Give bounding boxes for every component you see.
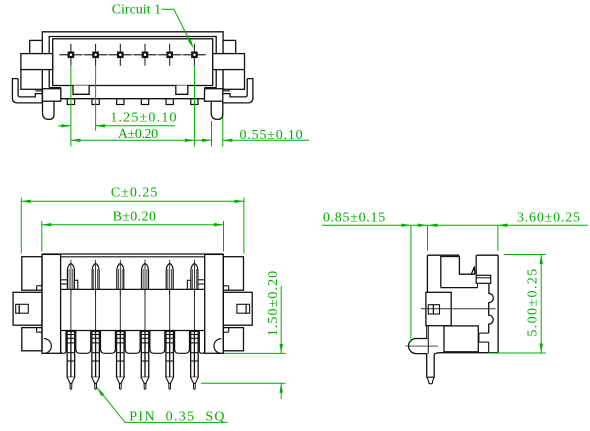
side view: outer profile: [427, 254, 459, 256]
side view: solder tab bullet: [409, 339, 428, 354]
top view: base bottom edge: [61, 98, 206, 100]
front view: left wall rounded end: [44, 339, 51, 354]
front view: right wall: [205, 254, 224, 353]
front view: left wall shelf: [61, 279, 68, 281]
top view: right step tab: [223, 40, 236, 53]
top view: mating pins (squares with crosshairs): [60, 44, 82, 66]
svg-text:A±0.20: A±0.20: [118, 127, 158, 142]
svg-text:0.85±0.15: 0.85±0.15: [323, 210, 386, 225]
svg-text:B±0.20: B±0.20: [113, 209, 157, 224]
side view: molding bottom: [441, 287, 478, 289]
front view: pin shanks inside base: [70, 289, 72, 331]
front view: through-hole pins: [67, 331, 75, 389]
front view: left solder clip: [13, 292, 42, 325]
dim: 1.25 pitch dimension: [58, 125, 71, 127]
top view: left step tab: [30, 40, 43, 53]
top view: right peg: [211, 101, 223, 119]
top view: left foot block: [43, 89, 61, 102]
dim: C dimension: [21, 200, 244, 202]
dim: C extension lines: [20, 198, 22, 254]
dim: 5.00 extension lines: [504, 254, 546, 256]
top view: right lower block: [223, 70, 244, 90]
dim: side extension lines: [410, 225, 412, 342]
front view: polarizing key pin 1: [74, 280, 77, 289]
side view: center line: [421, 308, 496, 310]
svg-text:PIN 0.35 SQ: PIN 0.35 SQ: [129, 409, 226, 424]
svg-text:0.55±0.10: 0.55±0.10: [240, 128, 304, 143]
front view: left lower block: [22, 328, 42, 351]
front view: right lower block: [223, 328, 243, 351]
front view: right solder clip: [223, 292, 252, 325]
front view: right wall rounded end: [214, 339, 221, 354]
svg-text:Circuit 1: Circuit 1: [112, 3, 161, 18]
dim: Circuit 1 leader: [162, 9, 191, 41]
top view: shroud middle wall: [49, 37, 216, 88]
dim: B dimension: [42, 224, 224, 226]
svg-text:1.50±0.20: 1.50±0.20: [266, 270, 281, 337]
dim: 5.00 dimension: [540, 255, 542, 354]
top view: housing outer body: [42, 32, 223, 103]
front view: right wall shelf: [198, 279, 205, 281]
front view: webs between pins: [61, 331, 66, 354]
top view: solder feet under pins: [67, 99, 74, 105]
svg-text:C±0.25: C±0.25: [111, 186, 159, 201]
side view: lower block: [444, 326, 478, 352]
front view: mating pins in cavity: [67, 260, 74, 295]
top view: left wing: [21, 54, 53, 70]
top view: right wing: [213, 54, 245, 70]
front view: right wing: [223, 257, 243, 291]
side view: molding top block: [441, 257, 475, 288]
dim: extension lines pins: [70, 66, 72, 147]
dim: 0.55 dimension line: [194, 139, 211, 141]
dim: B extension lines: [41, 221, 43, 252]
top view: left peg: [43, 101, 55, 119]
side view: slot block: [476, 275, 491, 283]
top view: right fitting nail hook: [223, 79, 253, 103]
top view: latch notch right: [176, 86, 188, 95]
side view: bottom edge: [442, 352, 498, 354]
dim: PIN 0.35 SQ note: [97, 387, 228, 422]
dim: 1.50 extension lines: [224, 352, 286, 354]
top view: pin center line: [59, 54, 206, 56]
dim: A dimension line: [71, 139, 194, 141]
dim: 1.50 dimension: [280, 286, 282, 353]
side view: solder clip side: [426, 292, 451, 325]
top view: shroud inner wall: [53, 39, 213, 86]
dim: 0.85 and 3.60 dimension line: [322, 224, 588, 226]
front view: base bottom edge: [61, 330, 205, 332]
front view: top edge: [42, 253, 223, 255]
front view: left wall: [42, 254, 61, 353]
svg-text:1.25±0.10: 1.25±0.10: [110, 111, 177, 126]
side view: pin bend fillet: [434, 353, 442, 355]
front view: cavity floor: [61, 288, 205, 290]
side view: through pin side: [427, 354, 435, 378]
svg-text:5.00±0.25: 5.00±0.25: [526, 267, 541, 336]
front view: left wing: [22, 257, 42, 291]
top view: left lower block: [21, 70, 42, 90]
side view: right wall with scallops: [489, 283, 494, 333]
svg-text:3.60±0.25: 3.60±0.25: [517, 210, 581, 225]
side view: latch wedge: [471, 267, 475, 275]
top view: right foot block: [205, 89, 223, 102]
top view: latch notch left: [73, 86, 89, 95]
front view: polarizing key pin 6: [187, 280, 190, 289]
top view: left fitting nail hook: [12, 79, 42, 103]
